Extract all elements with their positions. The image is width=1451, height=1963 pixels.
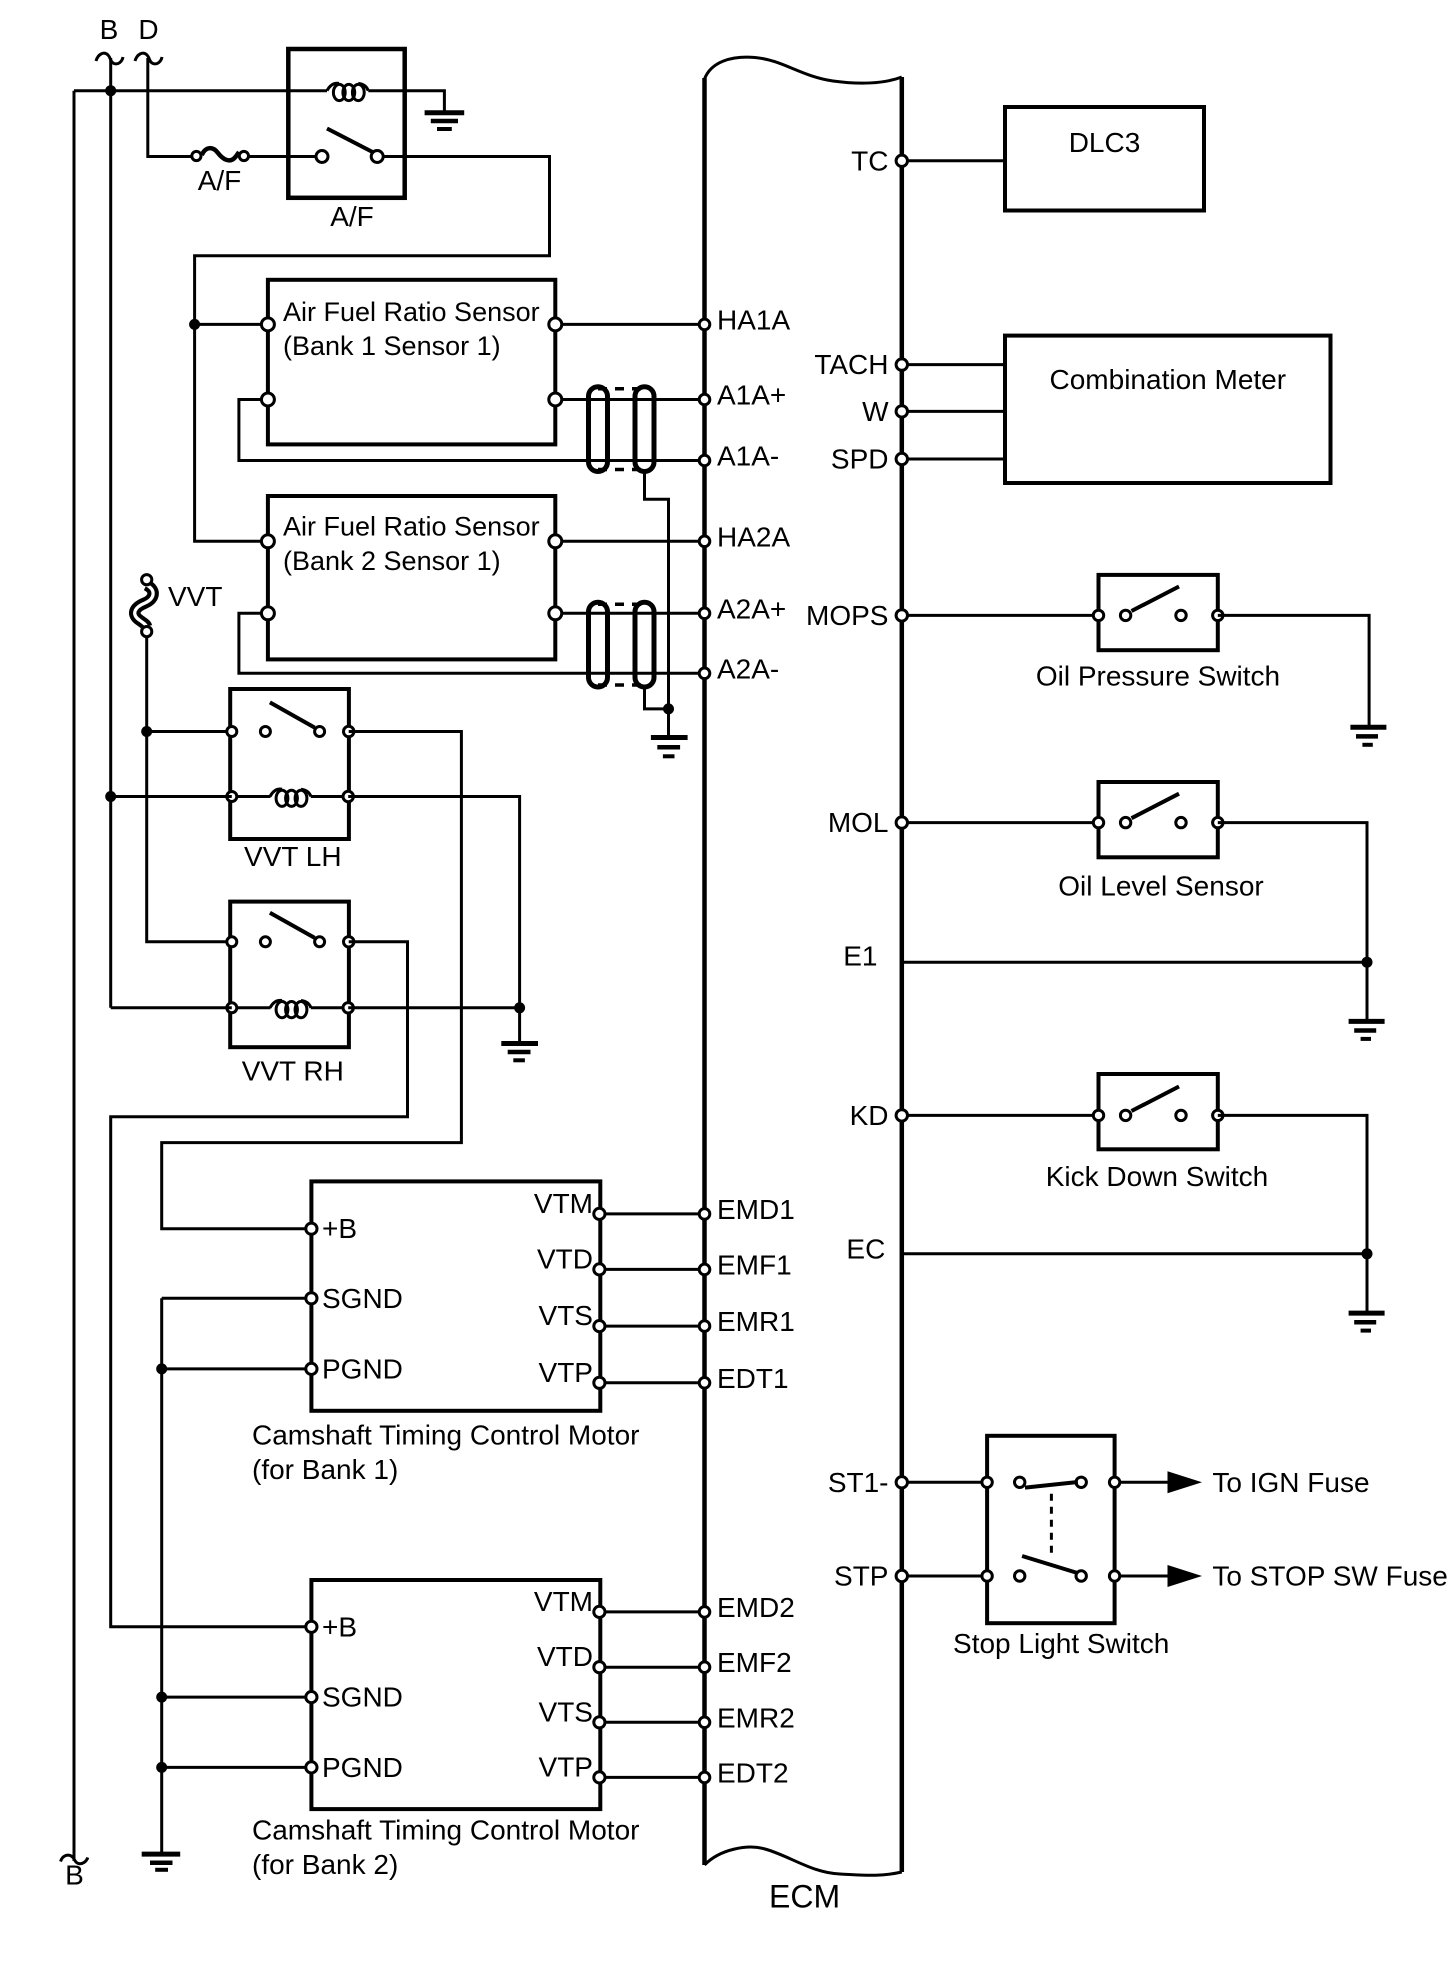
node KD (896, 1110, 907, 1121)
node A2A+ (699, 608, 710, 619)
svg-text:Kick Down Switch: Kick Down Switch (1046, 1161, 1269, 1192)
svg-text:VTD: VTD (537, 1243, 593, 1274)
svg-text:VTM: VTM (534, 1188, 593, 1219)
ECM bottom wavy edge (705, 1847, 902, 1875)
node HA2A (699, 536, 710, 547)
wire SPD to Combination Meter (902, 458, 1005, 461)
svg-text:EC: EC (846, 1234, 885, 1265)
pin VTM motor2 (594, 1606, 605, 1617)
pin VTD motor1 (594, 1264, 605, 1275)
shielded twisted pair 1 (589, 387, 655, 472)
wire VTP to EDT1 (599, 1381, 704, 1384)
wire VVT feed down to relays (147, 637, 231, 942)
svg-text:ECM: ECM (769, 1879, 840, 1915)
svg-text:PGND: PGND (322, 1353, 403, 1384)
wire VVT RH coil output to ground junction (348, 1006, 519, 1009)
wire Oil Level Sensor to E1 net (1218, 823, 1367, 963)
wire main B feed horizontal (74, 89, 327, 92)
ground G4 relay (425, 113, 465, 129)
junction PGND motor2 (156, 1762, 167, 1773)
svg-text:EMR2: EMR2 (717, 1702, 795, 1733)
ECM right boundary line (900, 77, 905, 1872)
ECM left boundary line (702, 78, 707, 1865)
svg-text:Camshaft Timing Control Motor: Camshaft Timing Control Motor (252, 1420, 639, 1451)
junction B line VVT LH coil (105, 791, 116, 802)
switch S4 Stop Light Switch (982, 1436, 1168, 1623)
wire VVT feed to VVT LH switch (147, 730, 231, 733)
relay VVT RH coil (227, 1000, 354, 1017)
ground G3 (1349, 1313, 1385, 1331)
wire VVT RH switch output (111, 942, 408, 1627)
wire VTD to EMF2 (599, 1666, 704, 1669)
motor Camshaft Timing Control Motor Bank 1 (311, 1181, 600, 1410)
svg-text:W: W (862, 396, 889, 427)
motor Camshaft Timing Control Motor Bank 2 (311, 1580, 600, 1809)
pin Bank1 lower-left (261, 393, 274, 406)
label Air Fuel Ratio Sensor Bank 1 (283, 297, 540, 361)
wire grounds to ground G7 (160, 1767, 163, 1854)
wire TACH to Combination Meter (902, 363, 1005, 366)
svg-text:Stop Light Switch: Stop Light Switch (953, 1628, 1169, 1659)
wire Bank1 A1A+ (555, 398, 704, 401)
node EMR1 (699, 1321, 710, 1332)
wire PGND motor1 (162, 1369, 312, 1697)
wire Bank2 HA2A (555, 540, 704, 543)
ground G5 shield (651, 738, 688, 757)
svg-text:A1A+: A1A+ (717, 380, 786, 411)
svg-text:Combination Meter: Combination Meter (1050, 364, 1287, 395)
svg-text:A2A+: A2A+ (717, 593, 786, 624)
wire E1 (902, 961, 1367, 964)
pin +B motor1 (306, 1223, 317, 1234)
wire PGND motor2 (162, 1697, 312, 1767)
wire break B (96, 53, 123, 64)
meter Combination Meter (1005, 336, 1331, 483)
svg-text:VVT RH: VVT RH (242, 1056, 344, 1087)
relay VVT LH coil (227, 789, 354, 806)
wire SGND motor1 (162, 1298, 312, 1369)
ground G2 (1349, 1021, 1385, 1039)
junction E1-ground (1362, 957, 1373, 968)
node EMF2 (699, 1662, 710, 1673)
wire feed down to Bank2 sensor (195, 324, 268, 541)
svg-text:VVT: VVT (168, 581, 222, 612)
relay VVT LH box (230, 689, 349, 839)
fuse A/F (192, 148, 249, 160)
svg-text:+B: +B (322, 1611, 357, 1642)
node W (896, 406, 907, 417)
wire VVT coils to ground (518, 1008, 521, 1044)
wire far-left B line down to bottom break (73, 91, 76, 1861)
junction shield drains (663, 703, 674, 714)
ground G7 motors (142, 1854, 181, 1870)
node EMD2 (699, 1607, 710, 1618)
pin Bank2 upper-right (549, 535, 562, 548)
wire MOL to Oil Level Sensor (902, 821, 1099, 824)
svg-text:A2A-: A2A- (717, 653, 779, 684)
svg-text:DLC3: DLC3 (1069, 127, 1141, 158)
svg-text:(for Bank 2): (for Bank 2) (252, 1849, 398, 1880)
svg-text:TC: TC (851, 145, 888, 176)
wire EC junction to ground (1366, 1254, 1369, 1313)
connector DLC3 (1005, 107, 1204, 211)
wire ST1- to Stop Light Switch (902, 1481, 987, 1484)
label Camshaft Timing Control Motor Bank2 (252, 1815, 639, 1880)
wire shield drain to ground (667, 709, 670, 738)
svg-text:To IGN Fuse: To IGN Fuse (1212, 1467, 1369, 1498)
svg-text:SGND: SGND (322, 1682, 403, 1713)
svg-text:EMF2: EMF2 (717, 1647, 792, 1678)
sensor Air Fuel Ratio Sensor Bank 1 (268, 280, 555, 445)
wire VTM to EMD1 (599, 1212, 704, 1215)
svg-text:Oil Level Sensor: Oil Level Sensor (1058, 870, 1263, 901)
relay A/F box (288, 49, 404, 198)
svg-text:KD: KD (850, 1100, 889, 1131)
ground G1 (1350, 727, 1386, 745)
wire fuse to relay (247, 155, 315, 158)
svg-text:(Bank 2 Sensor 1): (Bank 2 Sensor 1) (283, 546, 501, 576)
wire STP to Stop Light Switch (902, 1575, 987, 1578)
junction VVT feed to VVT LH (141, 726, 152, 737)
switch S2 Oil Level Sensor (1093, 782, 1223, 857)
wire relay coil to ground (368, 91, 444, 113)
wire Bank2 A2A- (239, 613, 705, 673)
node EDT1 (699, 1378, 710, 1389)
node A1A- (699, 455, 710, 466)
node MOL (896, 817, 907, 828)
wire VTD to EMF1 (599, 1268, 704, 1271)
svg-text:HA1A: HA1A (717, 304, 790, 335)
relay VVT RH box (230, 902, 349, 1048)
svg-text:To STOP SW Fuse: To STOP SW Fuse (1212, 1561, 1447, 1592)
pin Bank1 lower-right (549, 393, 562, 406)
wire SGND motor2 (162, 1696, 312, 1699)
wire B line to VVT LH coil (111, 795, 232, 798)
junction EC-ground (1362, 1248, 1373, 1259)
arrow to IGN fuse (1168, 1471, 1203, 1493)
svg-text:EMR1: EMR1 (717, 1306, 795, 1337)
wire B line feed to VVT RH coil (111, 1006, 232, 1009)
relay VVT LH switch (227, 702, 354, 736)
junction VVT coils ground (514, 1002, 525, 1013)
pin VTD motor2 (594, 1662, 605, 1673)
wire feed to Bank1 sensor (195, 323, 268, 326)
wire relay switch output to sensors feed (195, 157, 550, 325)
junction PGND motor1 (156, 1363, 167, 1374)
wire KD to Kick Down Switch (902, 1114, 1099, 1117)
pin VTP motor1 (594, 1377, 605, 1388)
wire VTS to EMR1 (599, 1325, 704, 1328)
pin Bank1 upper-right (549, 318, 562, 331)
node A2A- (699, 668, 710, 679)
svg-text:STP: STP (834, 1561, 888, 1592)
wire break B bottom (61, 1855, 88, 1864)
svg-text:VTD: VTD (537, 1641, 593, 1672)
wire shield1 drain (645, 472, 669, 709)
wire Kick Down Switch to EC net (1218, 1115, 1367, 1253)
pin SGND motor1 (306, 1293, 317, 1304)
svg-text:Air Fuel Ratio Sensor: Air Fuel Ratio Sensor (283, 297, 540, 327)
switch S1 Oil Pressure Switch (1093, 575, 1223, 650)
svg-text:VTP: VTP (539, 1751, 593, 1782)
node TC (896, 155, 907, 166)
pin PGND motor2 (306, 1762, 317, 1773)
wire W to Combination Meter (902, 410, 1005, 413)
relay A/F coil (327, 83, 368, 100)
pin Bank2 lower-left (261, 607, 274, 620)
pin Bank2 upper-left (261, 535, 274, 548)
node EMF1 (699, 1264, 710, 1275)
node EDT2 (699, 1772, 710, 1783)
wire Bank1 A1A- (239, 400, 705, 461)
node MOPS (896, 610, 907, 621)
wire Bank2 A2A+ (555, 612, 704, 615)
wire VTM to EMD2 (599, 1610, 704, 1613)
svg-text:EMD1: EMD1 (717, 1194, 795, 1225)
sensor Air Fuel Ratio Sensor Bank 2 (268, 496, 555, 659)
svg-text:Camshaft Timing Control Motor: Camshaft Timing Control Motor (252, 1815, 639, 1846)
svg-text:D: D (138, 14, 158, 45)
junction B line and main feed (105, 85, 116, 96)
pin Bank1 upper-left (261, 318, 274, 331)
node HA1A (699, 319, 710, 330)
node TACH (896, 359, 907, 370)
svg-text:VTM: VTM (534, 1586, 593, 1617)
arrow to STOP SW fuse (1168, 1565, 1203, 1587)
svg-text:A/F: A/F (330, 201, 374, 232)
svg-text:VVT LH: VVT LH (244, 841, 342, 872)
svg-text:EDT1: EDT1 (717, 1363, 789, 1394)
svg-text:A1A-: A1A- (717, 441, 779, 472)
relay VVT RH switch (227, 913, 354, 947)
pin VTS motor2 (594, 1717, 605, 1728)
node ST1- (896, 1477, 907, 1488)
svg-text:SPD: SPD (831, 444, 889, 475)
svg-text:Air Fuel Ratio Sensor: Air Fuel Ratio Sensor (283, 512, 540, 542)
label Air Fuel Ratio Sensor Bank 2 (283, 512, 540, 576)
pin Bank2 lower-right (549, 607, 562, 620)
pin SGND motor2 (306, 1692, 317, 1703)
svg-text:(Bank 1 Sensor 1): (Bank 1 Sensor 1) (283, 331, 501, 361)
svg-text:+B: +B (322, 1213, 357, 1244)
wire EC (902, 1252, 1367, 1255)
svg-text:PGND: PGND (322, 1752, 403, 1783)
svg-text:ST1-: ST1- (828, 1467, 889, 1498)
connector VVT twisted lead (135, 575, 153, 637)
node A1A+ (699, 394, 710, 405)
node SPD (896, 453, 907, 464)
wire VVT LH switch output (162, 732, 462, 1229)
svg-text:VTP: VTP (539, 1357, 593, 1388)
svg-text:TACH: TACH (814, 349, 888, 380)
svg-text:B: B (65, 1860, 84, 1891)
label Camshaft Timing Control Motor Bank1 (252, 1420, 639, 1485)
wire E1 junction to ground (1366, 962, 1369, 1021)
svg-text:EDT2: EDT2 (717, 1757, 789, 1788)
svg-text:MOPS: MOPS (806, 600, 888, 631)
relay A/F switch (316, 129, 383, 163)
wire MOPS to Oil Pressure Switch (902, 614, 1099, 617)
ground G6 VVT (501, 1044, 538, 1061)
svg-text:MOL: MOL (828, 807, 889, 838)
svg-text:B: B (100, 14, 119, 45)
wire D vertical to fuse (148, 58, 191, 157)
wire shield2 drain (645, 687, 669, 709)
pin PGND motor1 (306, 1363, 317, 1374)
svg-text:VTS: VTS (539, 1300, 593, 1331)
node STP (896, 1570, 907, 1581)
shielded twisted pair 2 (589, 602, 655, 687)
svg-text:SGND: SGND (322, 1283, 403, 1314)
svg-text:EMD2: EMD2 (717, 1592, 795, 1623)
junction SGND motor2 (156, 1692, 167, 1703)
svg-text:EMF1: EMF1 (717, 1249, 792, 1280)
svg-text:VTS: VTS (539, 1696, 593, 1727)
svg-text:HA2A: HA2A (717, 521, 790, 552)
node EMD1 (699, 1209, 710, 1220)
junction sensor feed node (189, 319, 200, 330)
wire break D (135, 53, 162, 64)
pin +B motor2 (306, 1621, 317, 1632)
wire VTS to EMR2 (599, 1721, 704, 1724)
pin VTP motor2 (594, 1772, 605, 1783)
pin VTS motor1 (594, 1321, 605, 1332)
switch S3 Kick Down Switch (1093, 1074, 1223, 1149)
wire Oil Pressure Switch to ground (1218, 615, 1369, 727)
ECM top wavy edge (705, 57, 902, 83)
svg-text:(for Bank 1): (for Bank 1) (252, 1454, 398, 1485)
node EMR2 (699, 1717, 710, 1728)
wire VVT LH coil output (348, 797, 519, 1008)
wire B vertical from break to VVT RH coil feed (109, 58, 112, 1008)
wire TC to DLC3 (902, 159, 1005, 162)
svg-text:A/F: A/F (198, 165, 242, 196)
svg-text:Oil Pressure Switch: Oil Pressure Switch (1036, 661, 1280, 692)
wire Bank1 HA1A (555, 323, 704, 326)
wire VTP to EDT2 (599, 1776, 704, 1779)
pin VTM motor1 (594, 1208, 605, 1219)
svg-text:E1: E1 (843, 941, 877, 972)
